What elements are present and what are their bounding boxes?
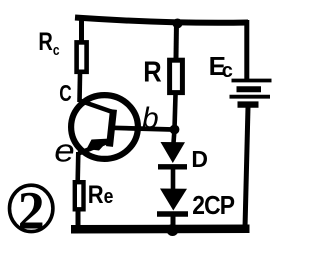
svg-text:C: C <box>59 82 72 107</box>
svg-text:c: c <box>222 60 233 82</box>
svg-text:2CP: 2CP <box>192 192 234 221</box>
svg-text:D: D <box>191 146 208 172</box>
svg-text:b: b <box>142 102 159 135</box>
svg-text:e: e <box>54 134 74 169</box>
svg-text:R: R <box>143 55 162 88</box>
svg-text:Rc: Rc <box>38 28 60 58</box>
svg-text:Re: Re <box>88 181 114 209</box>
svg-text:2: 2 <box>18 181 45 241</box>
